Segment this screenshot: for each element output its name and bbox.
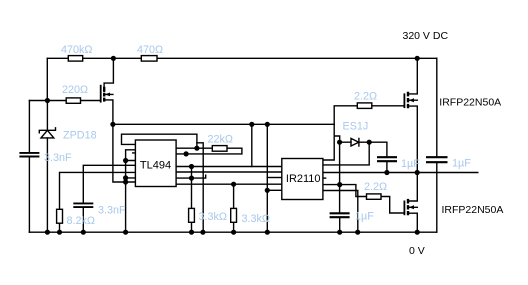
transistor Q2 channel bars [407, 199, 409, 215]
resistor R8 2.2 top [357, 103, 372, 109]
svg-text:3.3kΩ: 3.3kΩ [242, 213, 270, 225]
wire: left rail upper [28, 101, 30, 152]
wire: VB pin up to diode cathode [323, 142, 369, 165]
node: ground zener [45, 230, 50, 235]
node: ground COM [355, 230, 360, 235]
node: VCC pin right junction [337, 182, 342, 187]
transistor Q1 source leads [408, 100, 417, 172]
transistor Q1 channel bars [407, 92, 409, 108]
node: ground wire 203 [200, 230, 205, 235]
node: ground 3.3k2 [231, 230, 236, 235]
capacitor C3 3.3nF [73, 203, 93, 207]
node: bootstrap cap bottom junction [384, 170, 389, 175]
wire: left rail lower [28, 158, 30, 232]
wire: TL494 pin to 8.2k [60, 172, 136, 232]
node: 3.3k1 top junction [189, 164, 194, 169]
svg-text:2.2Ω: 2.2Ω [364, 181, 387, 193]
wire: 3.3k no.1 branch [191, 167, 193, 233]
resistor R6 3.3k [189, 208, 195, 222]
svg-text:320 V DC: 320 V DC [403, 30, 449, 42]
node: feedback pin junction [194, 146, 199, 151]
transistor Q2 gate bar [403, 201, 405, 214]
node: 3.3k2 top junction [231, 182, 236, 187]
wire: HO to gate resistor to Q1 gate [323, 106, 405, 160]
diode ZPD18 (zener) [39, 128, 55, 138]
node: rail junction Q3 drain [111, 56, 116, 61]
transistor Q2 source leads [408, 207, 417, 232]
wire: IR2110 lower left stub [267, 189, 282, 191]
resistor R7 3.3k [231, 208, 237, 222]
op-amp U2 IR2110 box [282, 159, 323, 200]
svg-text:470Ω: 470Ω [137, 44, 163, 56]
transistor Q3 startup MOSFET drain lead [104, 58, 113, 91]
wire: TL494 feedback pin to 22k [176, 147, 212, 149]
wire: zener branch [46, 101, 48, 233]
transistor Q2 drain lead [408, 173, 417, 202]
node: ground tie [123, 230, 128, 235]
resistor R2 470 [141, 56, 157, 62]
svg-text:3.3nF: 3.3nF [44, 152, 72, 164]
diode ES1J [351, 138, 359, 146]
svg-text:IRFP22N50A: IRFP22N50A [439, 97, 501, 109]
wire: 0V bottom rail [29, 231, 436, 233]
wire: VCC drop to line1 [251, 124, 253, 166]
resistor R9 2.2 bottom [367, 194, 382, 199]
transistor Q2 arrow [409, 205, 414, 209]
svg-text:TL494: TL494 [140, 160, 171, 172]
node: tie vertical junction 2 [123, 175, 128, 180]
wire: 22k return loop [176, 148, 242, 154]
wire: VCC/ground vertical at 267 [266, 124, 268, 232]
transistor Q1 drain lead [408, 58, 417, 94]
wire: 3.3k no.2 branch [233, 184, 235, 232]
capacitor C6 1uF vcc [330, 213, 350, 217]
svg-text:1µF: 1µF [401, 158, 420, 170]
wire: TL494 top loop pin4 [122, 134, 197, 148]
op-amp U2 pin1 tick [323, 177, 326, 179]
node: ground C3 [81, 230, 86, 235]
svg-text:1µF: 1µF [452, 158, 471, 170]
wire: left drop from rail to 220 row [46, 58, 48, 100]
node: VCC at Q3 source [110, 122, 115, 127]
wire: COM pin to ground [323, 191, 358, 233]
transistor Q3 source leads [104, 94, 113, 124]
wire: TL494 to IR2110 line1 [176, 166, 282, 168]
wire: IR2110 stub upper left [267, 177, 282, 179]
resistor R5 8.2k [57, 209, 63, 223]
wire: 220 ohm row [29, 100, 100, 102]
wire: VCC vertical to cap C6 [339, 142, 341, 232]
wire: bridge to ground drop [197, 143, 203, 232]
resistor R3 220 [66, 98, 80, 103]
node: ground 3.3k1 [189, 230, 194, 235]
capacitor C5 1uF bootstrap [377, 157, 397, 161]
wire: diode ES1J anode [334, 136, 351, 142]
wire: TL494 to IR2110 line2 [176, 171, 282, 173]
svg-text:3.3kΩ: 3.3kΩ [199, 211, 227, 223]
wire: TL494 stub line3 [176, 175, 206, 178]
transistor Q1 gate bar [403, 94, 405, 107]
node: ES1J anode junction [337, 140, 342, 145]
resistor R1 470k [68, 56, 82, 62]
svg-text:220Ω: 220Ω [62, 84, 88, 96]
node: ground 8.2k [57, 230, 62, 235]
node: 22k return junction [184, 151, 189, 156]
transistor Q3 gate bar [100, 86, 102, 102]
svg-text:IR2110: IR2110 [286, 173, 321, 185]
svg-text:ES1J: ES1J [343, 121, 369, 133]
svg-text:2.2Ω: 2.2Ω [354, 91, 377, 103]
transistor Q3 channel bars [103, 87, 105, 102]
svg-text:ZPD18: ZPD18 [63, 130, 97, 142]
svg-text:1µF: 1µF [355, 211, 374, 223]
node: ground C6 [337, 230, 342, 235]
wire: diode cathode to bootstrap cap [359, 142, 387, 172]
wire: right rail upper (320V to cap) [436, 58, 438, 156]
svg-text:8.2kΩ: 8.2kΩ [67, 215, 95, 227]
node: ground Q2 source [415, 230, 420, 235]
node: VCC drop 1 [249, 122, 254, 127]
wire: VS output line [323, 172, 478, 174]
svg-text:IRFP22N50A: IRFP22N50A [442, 204, 504, 216]
capacitor C7 1uF rail [426, 157, 448, 162]
wire: VCC down to TL494 supply pin [113, 124, 135, 182]
svg-text:3.3nF: 3.3nF [98, 205, 126, 217]
wire: LO pin to 2.2 gate resistor Q2 [323, 185, 405, 213]
wire: VCC line from Q3 source [113, 123, 334, 125]
wire: TL494 left tie vertical to ground [126, 150, 136, 232]
resistor R4 22k [212, 146, 227, 152]
node: output at Q1 source [415, 170, 420, 175]
node: IR2110 left lower junction [265, 188, 270, 193]
node: tie vertical junction 3 [123, 179, 128, 184]
node: ground 267 [265, 230, 270, 235]
capacitor C1 3.3nF left [19, 153, 39, 157]
svg-text:0 V: 0 V [409, 245, 425, 257]
node: tie vertical junction 1 [123, 158, 128, 163]
op-amp U1 TL494 box [135, 140, 176, 187]
node: 3.3k1 mid junction [189, 176, 194, 181]
wire: right rail lower (cap to 0V) [436, 163, 438, 232]
wire: TL494 to IR2110 line4 [176, 183, 282, 185]
node: rail junction Q1 drain [415, 56, 420, 61]
transistor Q3 arrow [105, 93, 110, 97]
svg-text:22kΩ: 22kΩ [208, 134, 233, 146]
node: ES1J cathode junction [367, 140, 372, 145]
wire: TL494 pin to 3.3nF cap C3 [83, 165, 135, 232]
transistor Q1 arrow [409, 98, 414, 102]
wire: +320V top rail [47, 57, 437, 59]
svg-text:470kΩ: 470kΩ [61, 44, 92, 56]
node: VCC drop 2 [265, 122, 270, 127]
node: zener top junction [45, 98, 50, 103]
